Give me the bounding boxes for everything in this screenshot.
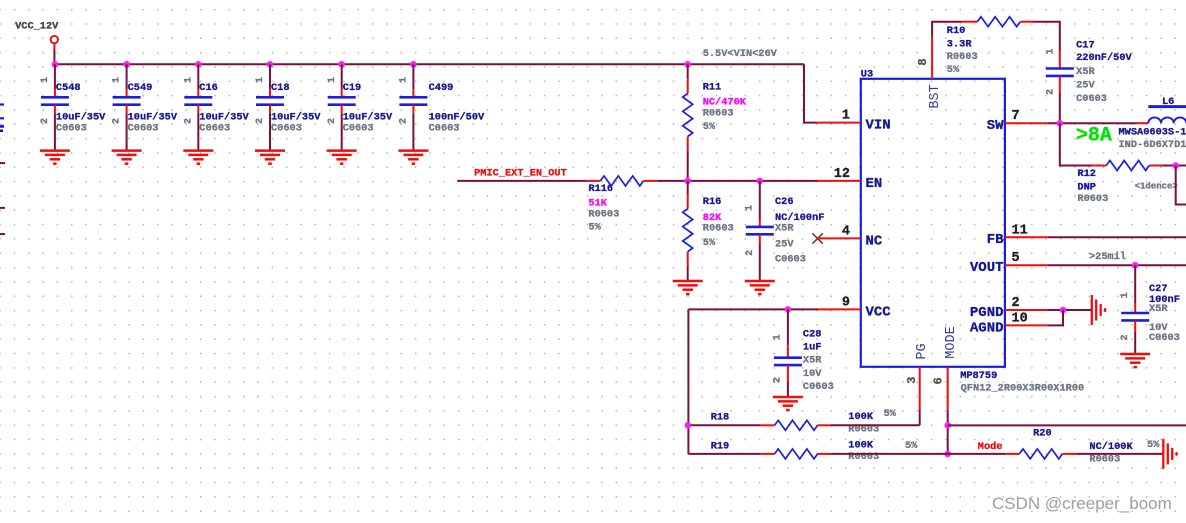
ground under C27	[1120, 354, 1150, 367]
pin 3 PG	[905, 343, 930, 410]
svg-text:BST: BST	[928, 84, 943, 108]
junction EN / C26	[757, 178, 764, 185]
svg-text:R10: R10	[947, 25, 966, 37]
capacitor C16	[183, 64, 249, 150]
svg-text:1: 1	[842, 109, 850, 124]
junction EN / R11 / R16	[684, 178, 691, 185]
wire FB net	[1048, 236, 1186, 238]
wire R12 to edge	[1163, 165, 1186, 167]
wire VCC_12V bus	[54, 63, 804, 65]
pin 11 FB	[987, 223, 1048, 248]
junction C499 top	[410, 61, 417, 68]
pin 6 MODE	[932, 326, 959, 410]
wire R10 to C17	[1033, 22, 1060, 51]
svg-text:R16: R16	[703, 196, 722, 208]
junction C19 top	[338, 61, 345, 68]
svg-text:PG: PG	[915, 343, 930, 359]
wire C18 to ground	[269, 113, 271, 150]
svg-text:X5R: X5R	[1149, 303, 1168, 315]
wire EN net	[658, 180, 818, 182]
wire R19 left	[688, 453, 760, 455]
junction MODE / R19 / R20	[944, 451, 951, 458]
junction C548 top	[52, 61, 59, 68]
capacitor C19	[327, 64, 393, 150]
power port VCC_12V	[51, 36, 58, 64]
wire PMIC_EXT_EN_OUT	[457, 180, 586, 182]
svg-text:C16: C16	[199, 82, 218, 94]
svg-text:1: 1	[1120, 292, 1131, 298]
pin 2 PGND	[970, 296, 1048, 321]
svg-text:2: 2	[1045, 89, 1056, 95]
svg-text:X5R: X5R	[775, 223, 794, 235]
svg-text:CSDN @creeper_boom: CSDN @creeper_boom	[992, 494, 1172, 513]
pin 8 BST	[916, 36, 943, 109]
svg-text:C0603: C0603	[199, 122, 230, 134]
svg-text:>8A: >8A	[1076, 125, 1112, 148]
svg-text:5%: 5%	[703, 121, 716, 133]
ground under C16	[183, 151, 213, 164]
svg-text:12: 12	[834, 167, 850, 182]
capacitor C26	[744, 181, 824, 281]
wire bus corner to VIN	[804, 64, 818, 122]
wire VCC net	[688, 308, 818, 310]
svg-text:NC: NC	[866, 233, 883, 249]
pin 4 NC	[818, 224, 883, 249]
svg-text:10V: 10V	[803, 368, 822, 380]
junction R12 out	[1172, 162, 1179, 169]
svg-text:8: 8	[916, 58, 930, 65]
junction R11 top	[684, 61, 691, 68]
svg-text:VCC_12V: VCC_12V	[15, 20, 59, 32]
svg-text:5%: 5%	[905, 440, 918, 452]
svg-text:100K: 100K	[848, 411, 874, 423]
svg-text:VIN: VIN	[866, 118, 891, 134]
svg-text:AGND: AGND	[970, 320, 1004, 336]
svg-text:QFN12_2R00X3R00X1R00: QFN12_2R00X3R00X1R00	[961, 382, 1085, 394]
svg-text:X5R: X5R	[803, 355, 822, 367]
wire AGND up to PGND	[1048, 310, 1063, 325]
svg-text:2: 2	[745, 250, 756, 256]
svg-text:C549: C549	[128, 82, 153, 94]
resistor R12	[1077, 161, 1177, 205]
wire BST to R10	[932, 22, 961, 36]
svg-text:X5R: X5R	[1076, 66, 1095, 78]
svg-text:2: 2	[399, 118, 410, 124]
svg-text:MWSA0603S-1: MWSA0603S-1	[1119, 126, 1186, 138]
svg-text:1: 1	[1045, 48, 1056, 54]
ground PGND	[1092, 295, 1105, 325]
svg-text:R11: R11	[703, 81, 722, 93]
svg-text:1: 1	[255, 77, 266, 83]
ground under C18	[255, 151, 285, 164]
svg-text:51K: 51K	[588, 197, 607, 209]
svg-text:VOUT: VOUT	[970, 260, 1004, 276]
svg-text:C0603: C0603	[1149, 332, 1180, 344]
svg-text:SW: SW	[987, 118, 1004, 134]
svg-text:220nF/50V: 220nF/50V	[1076, 52, 1132, 64]
svg-text:IND-6D6X7D1: IND-6D6X7D1	[1119, 139, 1186, 151]
wire R20 to ground	[1078, 453, 1164, 455]
resistor R16	[683, 181, 734, 281]
junction C18 top	[267, 61, 274, 68]
capacitor C548	[40, 64, 106, 150]
svg-text:2: 2	[1120, 334, 1131, 340]
svg-text:C0603: C0603	[56, 122, 87, 134]
svg-text:2: 2	[40, 118, 51, 124]
junction MODE / PG net	[944, 422, 951, 429]
wire VCC down to R18/R19	[687, 309, 689, 454]
svg-text:1: 1	[112, 77, 123, 83]
svg-text:PMIC_EXT_EN_OUT: PMIC_EXT_EN_OUT	[474, 168, 567, 180]
wire R12 junction down to edge	[1176, 166, 1186, 205]
svg-text:5%: 5%	[1147, 439, 1160, 451]
svg-text:C0603: C0603	[128, 122, 159, 134]
svg-text:MODE: MODE	[944, 326, 959, 358]
pin 10 AGND	[970, 311, 1048, 336]
capacitor C27	[1120, 265, 1180, 353]
wire C549 to ground	[126, 113, 128, 150]
wire C16 to ground	[197, 113, 199, 150]
svg-text:25V: 25V	[775, 239, 794, 251]
resistor R11	[683, 64, 747, 181]
svg-text:R18: R18	[711, 412, 730, 424]
ground under C499	[398, 151, 428, 164]
svg-text:C18: C18	[271, 82, 290, 94]
pin 1 VIN	[818, 109, 891, 134]
junction VCC column / R18	[685, 422, 692, 429]
svg-text:11: 11	[1012, 223, 1028, 238]
svg-text:2: 2	[112, 118, 123, 124]
wire SW down to R12	[1060, 123, 1092, 165]
wire VOUT net	[1048, 264, 1186, 266]
svg-text:C0603: C0603	[775, 253, 806, 265]
svg-text:25V: 25V	[1076, 80, 1095, 92]
svg-text:R116: R116	[588, 183, 613, 195]
svg-text:C0603: C0603	[429, 122, 460, 134]
svg-text:5: 5	[1012, 251, 1020, 266]
wire R18 left	[688, 424, 760, 426]
svg-text:2: 2	[327, 118, 338, 124]
ground Mode net	[1163, 439, 1176, 469]
svg-text:5%: 5%	[588, 222, 601, 234]
svg-text:100K: 100K	[848, 439, 874, 451]
ground under C548	[40, 151, 70, 164]
svg-text:>25mil: >25mil	[1089, 251, 1126, 263]
svg-text:FB: FB	[987, 232, 1004, 248]
svg-text:4: 4	[842, 224, 850, 239]
junction VOUT / C27	[1132, 262, 1139, 269]
ground under C549	[112, 151, 142, 164]
wire C548 to ground	[54, 113, 56, 150]
svg-text:5%: 5%	[884, 408, 897, 420]
no-connect mark pin 4	[812, 233, 822, 243]
svg-text:5.5V<VIN<26V: 5.5V<VIN<26V	[703, 48, 778, 60]
capacitor C549	[112, 64, 178, 150]
svg-text:R0603: R0603	[703, 223, 734, 235]
svg-text:5%: 5%	[947, 64, 960, 76]
junction VCC / C28	[785, 306, 792, 313]
svg-text:2: 2	[183, 118, 194, 124]
svg-text:R0603: R0603	[1089, 453, 1120, 465]
junction SW / C17 / R12	[1057, 120, 1064, 127]
svg-text:1: 1	[327, 77, 338, 83]
svg-text:C17: C17	[1076, 40, 1095, 52]
svg-text:6: 6	[932, 377, 946, 384]
svg-text:R12: R12	[1077, 168, 1096, 180]
svg-text:7: 7	[1012, 109, 1020, 124]
resistor R19	[711, 439, 918, 463]
svg-text:2: 2	[255, 118, 266, 124]
capacitor C17	[1045, 40, 1132, 124]
resistor R116	[586, 176, 658, 234]
svg-text:C548: C548	[56, 82, 81, 94]
capacitor C499	[399, 64, 486, 150]
svg-text:U3: U3	[861, 69, 873, 81]
svg-text:Mode: Mode	[978, 441, 1003, 453]
capacitor C18	[255, 64, 321, 150]
svg-text:C499: C499	[429, 82, 454, 94]
svg-text:C26: C26	[775, 196, 794, 208]
wire MODE down	[947, 410, 949, 454]
svg-text:5%: 5%	[703, 237, 716, 249]
wire C19 to ground	[341, 113, 343, 150]
junction C16 top	[195, 61, 202, 68]
resistor R18	[711, 408, 897, 436]
svg-text:3: 3	[905, 377, 919, 384]
svg-text:MP8759: MP8759	[960, 370, 997, 382]
svg-text:3.3R: 3.3R	[947, 39, 973, 51]
op-amp U3 body	[861, 79, 1005, 367]
svg-text:2: 2	[1012, 296, 1020, 311]
wire R19 to MODE junction	[831, 453, 1006, 455]
wire PGND net	[1048, 309, 1092, 311]
svg-text:R20: R20	[1033, 427, 1052, 439]
pin 7 SW	[987, 109, 1048, 134]
svg-text:R19: R19	[711, 441, 730, 453]
svg-text:C0603: C0603	[271, 122, 302, 134]
ground under C28	[773, 397, 803, 410]
ground under C19	[327, 151, 357, 164]
capacitor C28	[773, 309, 834, 396]
svg-text:PGND: PGND	[970, 305, 1004, 321]
inductor L6	[1119, 96, 1186, 151]
wire C499 to ground	[412, 113, 414, 150]
ground under C26	[745, 281, 775, 294]
pin 5 VOUT	[970, 251, 1048, 276]
svg-text:C0603: C0603	[803, 381, 834, 393]
clipped wire stubs at left edge	[0, 103, 5, 235]
svg-text:C0603: C0603	[343, 122, 374, 134]
svg-text:C28: C28	[803, 328, 822, 340]
svg-text:R0603: R0603	[1077, 193, 1108, 205]
pin 12 EN	[818, 167, 883, 192]
svg-text:C19: C19	[343, 82, 362, 94]
resistor R10	[947, 17, 1033, 76]
svg-text:1: 1	[183, 77, 194, 83]
svg-text:<1dence>: <1dence>	[1135, 181, 1178, 191]
resistor R20	[1006, 427, 1161, 465]
wire SW node	[1048, 122, 1137, 124]
svg-text:DNP: DNP	[1077, 182, 1096, 194]
junction PGND / AGND	[1060, 307, 1067, 314]
svg-text:R0603: R0603	[947, 51, 978, 63]
pin 9 VCC	[818, 295, 892, 320]
svg-text:2: 2	[773, 377, 784, 383]
junction C549 top	[123, 61, 130, 68]
svg-text:1: 1	[399, 77, 410, 83]
svg-text:10: 10	[1012, 311, 1028, 326]
wire R18 to PG	[831, 424, 920, 426]
svg-text:NC/100K: NC/100K	[1089, 441, 1133, 453]
svg-text:C0603: C0603	[1076, 93, 1107, 105]
svg-text:R0603: R0603	[703, 107, 734, 119]
svg-text:1: 1	[744, 205, 755, 211]
wire PG to R18	[919, 410, 921, 425]
svg-text:EN: EN	[866, 176, 883, 192]
svg-text:9: 9	[842, 295, 850, 310]
ground under R16	[673, 281, 703, 294]
svg-text:1: 1	[773, 334, 784, 340]
svg-text:VCC: VCC	[866, 304, 892, 320]
wire PG net to edge	[948, 424, 1186, 426]
svg-text:1: 1	[40, 77, 51, 83]
svg-text:L6: L6	[1162, 96, 1174, 108]
svg-text:R0603: R0603	[588, 209, 619, 221]
svg-text:1uF: 1uF	[803, 342, 822, 354]
